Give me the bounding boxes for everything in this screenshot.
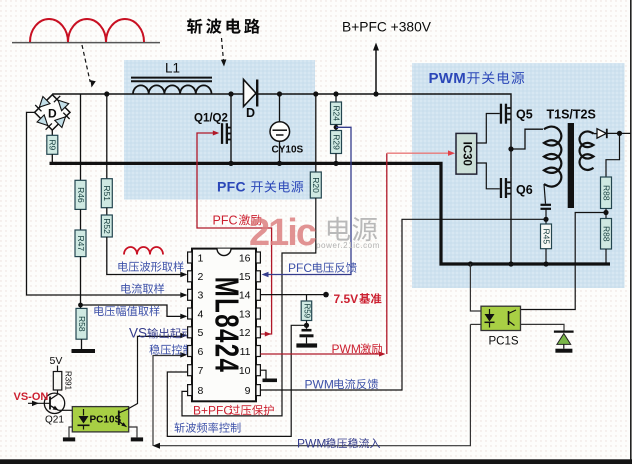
pin 3 stub (188, 289, 192, 300)
svg-text:B+PFC: B+PFC (193, 403, 232, 417)
svg-text:VS: VS (129, 326, 147, 341)
svg-text:PWM: PWM (332, 342, 361, 356)
wire PC10S collector to pin5 VS输出起动 (129, 336, 184, 408)
svg-text:R58: R58 (77, 316, 87, 332)
svg-text:R88: R88 (601, 226, 611, 242)
resistor R88 (lower) (601, 219, 612, 250)
optocoupler PC1S (470, 264, 481, 311)
svg-text:PFC: PFC (217, 179, 246, 195)
pin 2 stub (188, 271, 192, 282)
PC10S grounds (69, 427, 72, 437)
svg-text:Q1/Q2: Q1/Q2 (194, 113, 228, 125)
svg-text:D: D (48, 107, 57, 121)
pin 10 stub (256, 365, 260, 376)
svg-text:VS-ON: VS-ON (14, 391, 49, 403)
resistor R88 (upper) (601, 177, 612, 209)
resistor chain R46/R47 (80, 94, 82, 180)
label 电流取样 (121, 283, 130, 293)
secondary winding (580, 131, 594, 169)
label 电压幅值取样 (94, 306, 103, 316)
wire: thick return bus (50, 163, 611, 264)
svg-text:PC1S: PC1S (489, 335, 519, 347)
label 斩波频率控制 (174, 422, 184, 432)
svg-text:3: 3 (198, 290, 204, 302)
svg-text:PWM: PWM (305, 377, 334, 391)
wire Q5 source / Q6 drain, down to bus (510, 178, 512, 264)
svg-text:5V: 5V (50, 355, 63, 367)
svg-text:power.21ic.com: power.21ic.com (316, 241, 380, 250)
pin 1 stub (188, 252, 192, 263)
AC half-sine waveform (12, 42, 160, 44)
arrow into Q21 base (28, 402, 50, 404)
PWM block background (412, 63, 625, 288)
wire: main +380V rail (52, 94, 511, 178)
svg-text:R391: R391 (64, 371, 73, 391)
svg-text:R24: R24 (331, 105, 341, 121)
svg-text:PWM: PWM (297, 436, 326, 450)
svg-text:R45: R45 (541, 229, 551, 245)
title 斩波电路 (187, 18, 202, 33)
PFC block background (124, 60, 315, 200)
svg-text:7.5V: 7.5V (334, 292, 359, 306)
PC1S to zener (521, 324, 565, 331)
wire R20 to pin14 net / B+PFC protection rect (182, 198, 316, 416)
wire PWM电流反馈 pin9 to R45 node (260, 219, 546, 390)
svg-text:R29: R29 (331, 134, 341, 150)
resistor chain R51/R52 (106, 94, 108, 179)
bottom border bar (0, 459, 632, 464)
pin 8 stub (188, 385, 192, 396)
output diode (594, 133, 598, 135)
capacitor in primary leg (544, 184, 546, 204)
svg-text:R88: R88 (601, 185, 611, 201)
IC30 gate drive wires (477, 114, 500, 144)
svg-text:16: 16 (239, 252, 251, 264)
wire 稳压控制 to pin6 (153, 356, 184, 446)
pin 16 stub (256, 252, 260, 263)
svg-text:R20: R20 (311, 177, 321, 193)
pin10 ground (260, 370, 266, 378)
arrow up to B+PFC (375, 48, 377, 94)
svg-text:21ic: 21ic (249, 212, 317, 254)
wire to transformer primary (511, 129, 543, 149)
IC ML8424 (192, 249, 256, 402)
resistor R58 (76, 308, 87, 339)
svg-text:5: 5 (198, 327, 204, 339)
wire to R88 divider (606, 133, 620, 177)
wire pin14 to 7.5V ref (260, 294, 326, 296)
svg-text:R46: R46 (76, 187, 86, 203)
resistor R45 (541, 224, 552, 249)
IC30 (456, 133, 477, 174)
diode D (boost) (244, 80, 257, 107)
wire pin7 net (斩波频率控制 loop) (167, 325, 306, 436)
svg-text:IC30: IC30 (461, 142, 473, 166)
pin 11 stub (256, 346, 260, 357)
wire R88 junction to PC1S (521, 213, 607, 310)
ground under R58 (72, 349, 96, 353)
wire PFC voltage feedback (dark blue) to pin15 (266, 127, 351, 274)
pin 12 stub (256, 327, 260, 338)
bridge rectifier D (35, 95, 70, 130)
svg-text:R51: R51 (102, 185, 112, 201)
svg-text:Q21: Q21 (45, 415, 64, 426)
wire R52 to pin2 波形取样 (107, 237, 186, 275)
svg-text:R52: R52 (102, 218, 112, 234)
dashed arrow from title to PFC block (222, 38, 224, 61)
right border (630, 0, 632, 461)
resistor R59 (306, 295, 308, 301)
svg-text:PWM: PWM (429, 70, 467, 87)
pin 14 stub (256, 289, 260, 300)
pin 6 stub (188, 346, 192, 357)
svg-text:R9: R9 (48, 139, 58, 150)
optocoupler PC10S (59, 409, 73, 411)
svg-text:D: D (246, 106, 255, 120)
svg-text:PC10S: PC10S (90, 415, 122, 426)
svg-text:9: 9 (245, 385, 251, 397)
resistors R24/R29 divider (335, 94, 337, 102)
svg-text:6: 6 (198, 346, 204, 358)
wire 幅值取样 to pin4 (81, 305, 187, 316)
pin 15 stub (256, 271, 260, 282)
label 电压波形取样 (118, 261, 127, 271)
pin 13 stub (256, 308, 260, 319)
label 稳压控制 (149, 344, 159, 354)
svg-text:1: 1 (198, 252, 204, 264)
svg-text:Q6: Q6 (516, 183, 533, 197)
svg-text:4: 4 (198, 308, 204, 320)
wire PWM激励 (red) pin11 to IC30 (260, 353, 380, 355)
pin 7 stub (188, 365, 192, 376)
svg-text:B+PFC +380V: B+PFC +380V (342, 20, 432, 35)
capacitor CY10S (279, 94, 281, 122)
ground (296, 343, 317, 347)
zener/LED (green) (554, 331, 574, 333)
svg-text:7: 7 (198, 365, 204, 377)
svg-text:8: 8 (198, 385, 204, 397)
resistor R9 (51, 130, 53, 135)
svg-text:L1: L1 (165, 61, 180, 76)
svg-text:PFC: PFC (288, 261, 312, 275)
svg-text:T1S/T2S: T1S/T2S (547, 108, 596, 122)
core (568, 123, 574, 208)
svg-text:ML8424: ML8424 (207, 277, 244, 373)
dashed arrow from waveform to rectified line (82, 45, 90, 82)
svg-text:PFC: PFC (213, 213, 238, 227)
wire PWM regulation feedback (bottom) (158, 324, 470, 445)
svg-text:R59: R59 (302, 303, 311, 318)
svg-text:R47: R47 (76, 236, 86, 252)
node dots on rail (104, 91, 109, 96)
wire: PFC gate drive (red) from pin12 (197, 133, 272, 334)
resistor R20 (315, 94, 317, 172)
pin 4 stub (188, 308, 192, 319)
capacitor under R59 (302, 329, 312, 332)
wire bridge left vertex to current-sense run (27, 112, 187, 295)
primary winding (544, 127, 561, 187)
PC1S output to bottom feedback wire (470, 323, 481, 325)
svg-text:CY10S: CY10S (272, 145, 304, 156)
pin 9 stub (256, 385, 260, 396)
resistor R391 (53, 372, 62, 391)
transistor Q21 (44, 393, 64, 413)
small red waveform (124, 247, 163, 255)
svg-text:Q5: Q5 (516, 108, 533, 122)
svg-text:2: 2 (198, 271, 204, 283)
pin 5 stub (188, 327, 192, 338)
